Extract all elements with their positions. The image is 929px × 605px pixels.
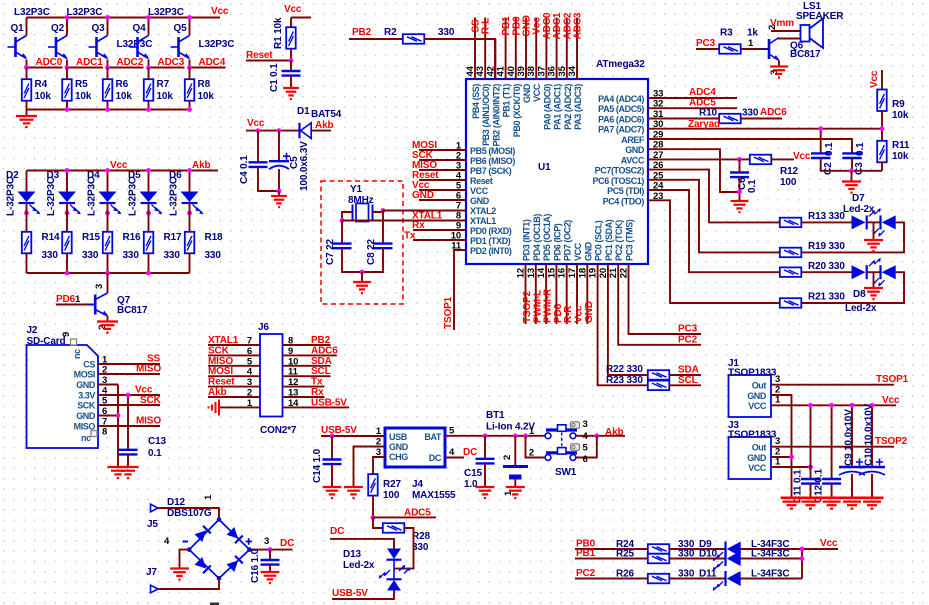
wire U1 pin27 AVCC [648, 158, 750, 160]
svg-text:GND: GND [470, 196, 490, 206]
svg-text:TSOP2: TSOP2 [875, 436, 908, 447]
svg-text:C7 22: C7 22 [325, 238, 336, 265]
svg-text:CON2*7: CON2*7 [260, 425, 297, 436]
ground J6 pin1 (rotated) [209, 400, 220, 416]
svg-text:10k: 10k [35, 91, 52, 102]
junction R1/C1/Reset [289, 58, 294, 63]
dual LED D7 Led-2x [852, 208, 896, 237]
resistor R6 10k [103, 79, 113, 101]
wire U1 pin 14 bottom [545, 264, 547, 324]
svg-text:330: 330 [42, 250, 59, 261]
wire J6 pin 14 USB-5V [283, 406, 350, 408]
svg-text:DC: DC [463, 447, 477, 458]
wire LED bottom rail [27, 272, 190, 274]
wire J3.2 GND [771, 456, 792, 458]
junction LED cathode D4 [105, 211, 110, 216]
junction BT1 [513, 433, 518, 438]
svg-text:R21 330: R21 330 [808, 292, 845, 303]
wire J1.3 to TSOP1 [771, 384, 894, 386]
svg-text:BC817: BC817 [790, 49, 821, 60]
svg-text:R23 330: R23 330 [606, 375, 643, 386]
svg-text:PA4 (ADC4): PA4 (ADC4) [598, 94, 644, 104]
connector J3 TSOP1833 body [729, 437, 772, 479]
ground (rail) [843, 502, 861, 509]
svg-text:VCC: VCC [470, 186, 489, 196]
svg-text:PA7 (ADC7): PA7 (ADC7) [598, 125, 644, 135]
capacitor C4 0.1 [257, 131, 259, 163]
junction bottom rail [146, 107, 151, 112]
svg-text:VCC: VCC [748, 463, 767, 473]
svg-text:C9 10.0x10V: C9 10.0x10V [844, 409, 855, 466]
svg-text:R16: R16 [123, 232, 141, 243]
svg-text:J5: J5 [147, 519, 158, 530]
wire Q6 collector to speaker [779, 38, 801, 39]
ground crystal [353, 281, 371, 283]
svg-text:PD2 (INT0): PD2 (INT0) [470, 246, 512, 256]
connector J5 [151, 504, 159, 512]
svg-text:PC4 (TDO): PC4 (TDO) [603, 196, 645, 206]
svg-text:Tx: Tx [311, 377, 323, 388]
svg-text:Y1: Y1 [350, 184, 363, 195]
wire U1 pin 17 bottom [576, 264, 578, 324]
junction bottom rail [187, 107, 192, 112]
resistor R9 10k [881, 70, 883, 90]
junction bottom rail [65, 107, 70, 112]
junction SW1 branch [523, 433, 528, 438]
svg-text:XTAL1: XTAL1 [208, 335, 239, 346]
svg-text:10k: 10k [892, 110, 909, 121]
wire PB1 to R25 [575, 558, 648, 560]
svg-text:PD7 (OC2): PD7 (OC2) [563, 220, 573, 261]
wire crystal right to XTAL2 net [373, 211, 384, 213]
resistor R25 330 [648, 554, 670, 564]
resistor R4 10k [22, 79, 32, 101]
svg-text:R1 10k: R1 10k [273, 17, 284, 49]
wire U1 pin 4 (Reset) [419, 179, 466, 181]
wire ADC5 stub [373, 516, 436, 518]
svg-text:PA1 (ADC1): PA1 (ADC1) [553, 84, 563, 130]
svg-text:J2: J2 [27, 325, 38, 336]
wire J2 pin 3 [98, 384, 118, 386]
junction C9 rail [850, 403, 855, 408]
wire U1 pin24 to R20 [648, 190, 779, 272]
svg-text:PB1 (T1): PB1 (T1) [502, 84, 512, 118]
wire SW1 to Akb [576, 435, 625, 437]
wire J6 pin 11 SCL [283, 375, 331, 377]
svg-text:SCL: SCL [678, 375, 698, 386]
svg-text:10k: 10k [892, 151, 909, 162]
svg-text:8: 8 [102, 427, 107, 438]
svg-text:C3: C3 [854, 162, 865, 175]
svg-text:L-32P3C: L-32P3C [46, 177, 57, 216]
capacitor C3 0.1 [842, 153, 861, 158]
junction LED cathode D3 [65, 211, 70, 216]
svg-text:R7: R7 [157, 79, 170, 90]
wire bridge right to DC [250, 549, 293, 551]
svg-text:TSOP1833: TSOP1833 [728, 430, 777, 441]
svg-text:PD3 (INT1): PD3 (INT1) [522, 219, 532, 261]
node ADC1 stub [67, 67, 103, 69]
svg-text:L32P3C: L32P3C [148, 7, 184, 18]
resistor R23 330 [648, 381, 670, 391]
svg-text:CHG: CHG [389, 452, 408, 462]
wire Q6 emitter to ground [778, 61, 780, 67]
svg-text:8MHz: 8MHz [348, 195, 374, 206]
wire D7 center to ground [873, 222, 875, 240]
svg-text:PC7(TOSC2): PC7(TOSC2) [595, 166, 645, 176]
svg-text:C15: C15 [464, 468, 482, 479]
junction J3 vcc [808, 465, 813, 470]
svg-text:Vcc: Vcc [135, 385, 153, 396]
resistor R14 330 [26, 203, 28, 232]
svg-text:4: 4 [449, 447, 455, 458]
svg-text:Vcc: Vcc [247, 118, 265, 129]
switch SW1 (dual slide) [545, 425, 577, 461]
svg-text:SDA: SDA [311, 356, 332, 367]
svg-text:J7: J7 [146, 567, 157, 578]
svg-text:PB6 (MISO): PB6 (MISO) [470, 156, 515, 166]
svg-text:8: 8 [288, 336, 293, 347]
resistor R3 1k [719, 44, 741, 54]
junction top rail Q3 [105, 15, 110, 20]
wire J6 pin 4 MOSI [208, 375, 260, 377]
svg-text:SCK: SCK [208, 345, 230, 356]
svg-text:4: 4 [247, 367, 253, 378]
svg-text:C8 22: C8 22 [366, 238, 377, 265]
svg-text:R26: R26 [616, 569, 634, 580]
svg-text:SCK: SCK [140, 395, 162, 406]
ground C14 [323, 486, 342, 488]
svg-text:PB7 (SCK): PB7 (SCK) [470, 166, 512, 176]
ground C1 [290, 76, 292, 88]
svg-text:14: 14 [288, 398, 299, 409]
wire U1 pin 36 top [556, 18, 558, 80]
wire U1 pin21 PC2 [618, 264, 701, 345]
ground (rail) [783, 502, 801, 509]
transistor Q4 L32P3C [148, 18, 150, 36]
svg-text:330: 330 [164, 250, 181, 261]
wire D7 right loop to R19 [801, 221, 852, 223]
svg-text:ADC0: ADC0 [36, 57, 63, 68]
LED D3 L-32P3C [66, 171, 68, 192]
svg-text:MAX1555: MAX1555 [412, 490, 456, 501]
wire J6 pin 9 ADC6 [283, 354, 337, 356]
resistor R27 100 [368, 474, 378, 496]
capacitor C2 0.1 [820, 129, 822, 154]
svg-text:BAT54: BAT54 [311, 109, 342, 120]
junction LED bottom rail [105, 271, 110, 276]
wire DC to D13 [330, 539, 394, 549]
wire J1.2 GND down [771, 395, 792, 498]
wire J6 pin 6 SCK [208, 354, 260, 356]
svg-text:L32P3C: L32P3C [14, 7, 50, 18]
svg-text:PC3 (TMS): PC3 (TMS) [625, 219, 635, 261]
svg-text:100.0x6.3V: 100.0x6.3V [299, 141, 310, 191]
svg-text:PC6 (TOSC1): PC6 (TOSC1) [593, 176, 645, 186]
svg-text:CS: CS [83, 360, 95, 370]
ground C6 [731, 200, 749, 202]
wire Reset to R1 [246, 60, 291, 62]
wire J5 to bridge top [159, 508, 220, 520]
svg-text:USB-5V: USB-5V [321, 425, 357, 436]
wire bottom rail Q bank [27, 109, 191, 111]
svg-text:nc: nc [72, 349, 82, 359]
svg-text:L32P3C: L32P3C [199, 39, 235, 50]
wire R24 to D9 [669, 548, 725, 550]
wire C6 to ground [739, 177, 741, 201]
wire J7 to bridge bottom [159, 578, 220, 589]
svg-text:9: 9 [61, 332, 72, 337]
svg-text:L-32P3C: L-32P3C [6, 177, 17, 216]
wire R9 to R11 [881, 111, 883, 141]
wire U1 pin10 Tx [413, 239, 466, 241]
svg-text:PB2: PB2 [311, 335, 331, 346]
resistor R19 330 [780, 248, 802, 258]
svg-text:0.1: 0.1 [747, 179, 758, 193]
svg-text:D8: D8 [853, 289, 866, 300]
svg-text:C16 1.0: C16 1.0 [250, 548, 261, 583]
junction LED rail D3 [65, 168, 70, 173]
wire Vcc rail top-left [27, 17, 221, 19]
wire USB-5V to J4.1 [321, 435, 385, 437]
svg-text:3: 3 [94, 284, 105, 289]
junction pin28 gnd [737, 190, 742, 195]
svg-text:Vcc: Vcc [284, 4, 302, 15]
junction bridge bottom [217, 576, 222, 581]
resistor R22 330 [648, 370, 670, 380]
svg-text:10k: 10k [157, 91, 174, 102]
svg-text:2: 2 [529, 448, 534, 459]
svg-text:Reset: Reset [470, 176, 493, 186]
wire U1 pin 18 bottom [586, 264, 588, 324]
ground J2/C13 [108, 466, 129, 468]
wire PD6 to Q7 base [56, 304, 95, 306]
svg-text:Vcc: Vcc [110, 160, 128, 171]
svg-text:ADC6: ADC6 [760, 107, 787, 118]
svg-text:100: 100 [780, 177, 797, 188]
svg-text:1: 1 [775, 395, 781, 406]
svg-text:GND: GND [76, 380, 96, 390]
wire J2 pin 5 [98, 404, 160, 406]
node ADC0 stub [27, 67, 63, 69]
svg-text:DC: DC [280, 538, 294, 549]
svg-text:ADC4: ADC4 [199, 57, 226, 68]
svg-text:BC817: BC817 [117, 305, 148, 316]
svg-text:AVCC: AVCC [621, 155, 645, 165]
svg-text:MISO: MISO [136, 364, 161, 375]
svg-text:PD4 (OC1B): PD4 (OC1B) [532, 214, 542, 261]
svg-text:ADC5: ADC5 [404, 508, 431, 519]
svg-text:R5: R5 [75, 79, 88, 90]
resistor R7 10k [144, 79, 154, 101]
ground J4 GND [344, 486, 363, 488]
wire U1 pin 6 (GND) [419, 199, 466, 201]
transistor Q3 L32P3C [107, 18, 109, 36]
wire U1 pin 40 top [515, 18, 517, 80]
junction LED rail D5 [146, 168, 151, 173]
svg-text:TSOP1: TSOP1 [876, 374, 909, 385]
junction C2/Zaryad [818, 126, 823, 131]
svg-text:330: 330 [742, 108, 759, 119]
svg-text:VCC: VCC [573, 242, 583, 261]
capacitor C9 10.0x10V electrolytic [851, 405, 853, 467]
resistor R5 10k [62, 79, 71, 101]
svg-text:AREF: AREF [621, 135, 645, 145]
svg-text:Q2: Q2 [51, 23, 65, 34]
svg-text:Q3: Q3 [92, 23, 106, 34]
transistor Q6 BC817 [761, 38, 779, 61]
svg-text:C4 0.1: C4 0.1 [239, 155, 250, 184]
svg-text:GND: GND [389, 442, 409, 452]
svg-text:GND: GND [584, 301, 595, 323]
wire U1 pin 44 top [474, 18, 476, 80]
capacitor C11 0.1 [810, 405, 812, 479]
svg-text:PC2: PC2 [576, 568, 596, 579]
wire J2 GND down [117, 385, 119, 468]
LED D5 L-32P3C [148, 171, 150, 192]
wire U1 pin 41 top [505, 18, 507, 80]
wire R2 to pin42 [424, 39, 495, 79]
svg-text:3: 3 [264, 536, 269, 547]
node ADC2 stub [108, 67, 144, 69]
svg-text:PB0 (XCK/T0): PB0 (XCK/T0) [512, 84, 522, 138]
wire U1 pin 1 (MOSI) [419, 149, 466, 151]
svg-text:ATmega32: ATmega32 [596, 59, 645, 70]
svg-text:U1: U1 [538, 162, 551, 173]
wire U1 pin 38 top [535, 18, 537, 80]
junction C10 rail [870, 403, 875, 408]
svg-text:SW1: SW1 [555, 467, 577, 478]
svg-text:R2: R2 [384, 27, 397, 38]
svg-text:Rx: Rx [311, 387, 324, 398]
svg-text:Q4: Q4 [133, 23, 147, 34]
svg-text:Reset: Reset [208, 377, 235, 388]
wire U1 pin32 ADC5 [648, 107, 737, 109]
wire Vcc/Akb LED rail [27, 170, 219, 172]
svg-text:10k: 10k [75, 91, 92, 102]
wire bridge left to ground [180, 550, 190, 569]
svg-text:Akb: Akb [605, 427, 623, 438]
capacitor C5 100.0x6.3V electrolytic [278, 131, 280, 162]
wire U1 pin9 Rx [413, 229, 466, 231]
wire J4.4 DC stub [445, 457, 464, 459]
LED D2 L-32P3C [26, 171, 28, 192]
wire D8 center to ground [873, 272, 875, 288]
capacitor C1 0.1 [290, 61, 292, 72]
svg-text:SCK: SCK [77, 401, 96, 411]
svg-text:2: 2 [376, 437, 381, 448]
svg-text:VCC: VCC [532, 83, 542, 102]
svg-text:C14 1.0: C14 1.0 [312, 448, 323, 483]
ground Q6 [770, 65, 788, 67]
resistor R2 330 [403, 34, 425, 44]
resistor R21 330 [780, 298, 802, 308]
speaker LS1 [801, 19, 824, 49]
svg-text:Out: Out [752, 381, 767, 391]
ground D8 [864, 287, 883, 289]
LED D6 L-32P3C [189, 171, 191, 192]
svg-text:1: 1 [748, 38, 754, 49]
svg-text:L-32P3C: L-32P3C [128, 177, 139, 216]
svg-text:R8: R8 [198, 79, 211, 90]
svg-text:GND: GND [76, 411, 96, 421]
svg-text:PC2 (TCK): PC2 (TCK) [614, 220, 624, 261]
junction C4/C5 gnd [277, 189, 282, 194]
bridge diode [227, 556, 243, 572]
junction LED rail D6 [187, 168, 192, 173]
svg-text:J4: J4 [412, 479, 423, 490]
svg-text:5: 5 [247, 356, 253, 367]
wire J6 pin 13 Rx [283, 396, 325, 398]
junction LED rail D4 [105, 168, 110, 173]
svg-text:PB2 (AIN0/INT2): PB2 (AIN0/INT2) [491, 84, 501, 147]
junction C12 rail [829, 403, 834, 408]
resistor R17 330 [148, 203, 150, 232]
svg-text:9: 9 [288, 346, 293, 357]
svg-text:1: 1 [775, 457, 781, 468]
svg-text:R20 330: R20 330 [808, 261, 845, 272]
wire J6 pin 8 PB2 [283, 344, 331, 346]
svg-text:PD6 (ICP): PD6 (ICP) [552, 223, 562, 261]
svg-text:11: 11 [288, 367, 299, 378]
svg-text:PC1 (SDA): PC1 (SDA) [604, 219, 614, 261]
svg-text:Led-2x: Led-2x [845, 303, 877, 314]
junction J2 Vcc/C13 [126, 393, 131, 398]
ground (rail) [863, 502, 881, 509]
connector J1 TSOP1833 body [729, 375, 772, 417]
svg-text:J6: J6 [258, 322, 269, 333]
svg-text:USB-5V: USB-5V [311, 397, 347, 408]
svg-text:DC: DC [429, 453, 442, 463]
junction AVCC/C6 [737, 157, 742, 162]
svg-text:Tx: Tx [404, 231, 416, 242]
wire U1 pin 12 bottom [525, 264, 527, 324]
svg-text:R9: R9 [892, 99, 905, 110]
svg-text:PA5 (ADC5): PA5 (ADC5) [598, 104, 644, 114]
svg-text:L-32P3C: L-32P3C [87, 177, 98, 216]
svg-text:6: 6 [583, 454, 588, 465]
svg-text:Reset: Reset [246, 50, 273, 61]
svg-text:ADC1: ADC1 [76, 57, 103, 68]
junction LED bottom rail [146, 271, 151, 276]
svg-text:1k: 1k [747, 28, 758, 39]
junction LED cathode D5 [146, 211, 151, 216]
svg-text:XTAL1: XTAL1 [470, 216, 496, 226]
capacitor C10 10.0x10V electrolytic [871, 405, 873, 467]
wire J6 pin 3 Reset [208, 386, 260, 388]
svg-text:D11: D11 [699, 569, 717, 580]
svg-text:PB4 (SS): PB4 (SS) [471, 84, 481, 119]
svg-text:PD5 (OC1A): PD5 (OC1A) [542, 214, 552, 261]
junction LED cathode D2 [24, 211, 29, 216]
junction XTAL1 [340, 218, 345, 223]
junction C14 [330, 434, 335, 439]
svg-text:3.3V: 3.3V [78, 391, 95, 401]
wire J6 pin 1 to ground [220, 406, 260, 408]
svg-text:Akb: Akb [315, 120, 333, 131]
wire D8 right loop to R21 [801, 271, 852, 273]
capacitor C15 1.0 [484, 436, 486, 459]
capacitor C16 1.0 [269, 550, 271, 560]
wire U1 pin 16 bottom [566, 264, 568, 324]
LED D9 L-34F3C [713, 542, 741, 562]
transistor Q5 L32P3C [189, 18, 191, 36]
svg-text:ADC3: ADC3 [573, 12, 584, 39]
svg-text:D1: D1 [297, 106, 310, 117]
wire D10 to Vcc column [741, 558, 803, 560]
svg-text:TSOP1: TSOP1 [443, 296, 454, 329]
svg-text:Out: Out [752, 443, 767, 453]
